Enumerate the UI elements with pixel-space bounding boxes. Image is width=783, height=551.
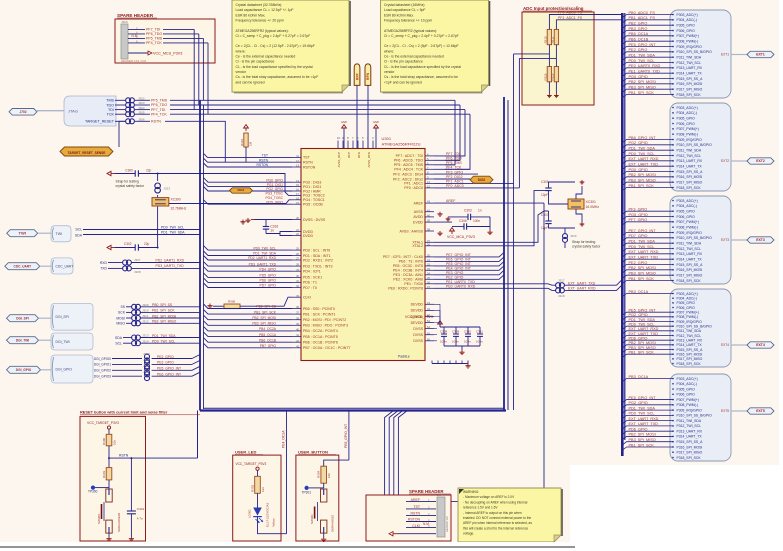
svg-text:CLKI: CLKI bbox=[303, 296, 311, 300]
DGI_SPI group bbox=[7, 315, 39, 322]
svg-text:PG3 : TOSC2: PG3 : TOSC2 bbox=[303, 194, 325, 198]
svg-text:DGI_GPIO: DGI_GPIO bbox=[56, 367, 73, 371]
svg-text:AVSS_RFP: AVSS_RFP bbox=[337, 152, 341, 167]
svg-text:DGI_GPIO3: DGI_GPIO3 bbox=[94, 375, 111, 379]
LED LD301 bbox=[253, 508, 262, 516]
svg-text:100n: 100n bbox=[452, 340, 459, 344]
svg-text:1n: 1n bbox=[478, 209, 482, 213]
svg-text:XTAL2: XTAL2 bbox=[412, 244, 423, 248]
svg-text:PB3_SPI_MISO: PB3_SPI_MISO bbox=[629, 438, 656, 442]
svg-text:EXT2: EXT2 bbox=[721, 159, 729, 163]
wire R304 to drop bbox=[324, 460, 349, 466]
spare header bottom box bbox=[366, 495, 451, 541]
svg-text:RSTN: RSTN bbox=[119, 454, 129, 458]
svg-text:TST: TST bbox=[303, 156, 311, 160]
svg-text:PG2 / AMR: PG2 / AMR bbox=[303, 189, 321, 193]
svg-text:PD0_TWI_SCL: PD0_TWI_SCL bbox=[629, 152, 655, 156]
svg-text:C303: C303 bbox=[464, 209, 472, 213]
wire TMS down bbox=[202, 38, 204, 100]
svg-text:PB6_GPIO_INT: PB6_GPIO_INT bbox=[629, 136, 657, 140]
svg-text:P318_SPI_SCK: P318_SPI_SCK bbox=[677, 362, 702, 366]
svg-text:J300: J300 bbox=[121, 20, 128, 24]
svg-text:PG0 : DIG3: PG0 : DIG3 bbox=[303, 181, 321, 185]
svg-text:PF1_ADC1_FS: PF1_ADC1_FS bbox=[558, 16, 583, 20]
svg-text:P306_GPIO: P306_GPIO bbox=[677, 215, 696, 219]
svg-text:PF3 : ADC3 : DIG4: PF3 : ADC3 : DIG4 bbox=[393, 172, 423, 176]
svg-text:EXT1: EXT1 bbox=[721, 53, 729, 57]
svg-text:PF4_TCK: PF4_TCK bbox=[151, 112, 167, 116]
svg-text:P311_TWI_SDA: P311_TWI_SDA bbox=[677, 241, 702, 245]
MCU right XTAL1 XTAL2 bbox=[425, 241, 434, 243]
svg-text:100n: 100n bbox=[464, 340, 471, 344]
svg-text:PD0_TWI_SCL: PD0_TWI_SCL bbox=[629, 59, 655, 63]
svg-text:JTAG: JTAG bbox=[68, 109, 78, 114]
svg-text:J316: J316 bbox=[570, 234, 577, 238]
svg-text:P313_UART_RX: P313_UART_RX bbox=[677, 66, 703, 70]
svg-text:J318: J318 bbox=[558, 294, 565, 298]
svg-text:PE5_GPIO_INT: PE5_GPIO_INT bbox=[629, 396, 657, 400]
svg-text:P306_GPIO: P306_GPIO bbox=[677, 306, 696, 310]
svg-text:PD7 : T0: PD7 : T0 bbox=[303, 286, 317, 290]
svg-text:P312_TWI_SCL: P312_TWI_SCL bbox=[677, 424, 702, 428]
svg-text:P307_PWM(+): P307_PWM(+) bbox=[677, 127, 699, 131]
resistor R300 bbox=[106, 434, 112, 446]
wire TDO row bbox=[170, 104, 460, 106]
svg-text:PD1_TWI_SDA: PD1_TWI_SDA bbox=[629, 146, 656, 150]
svg-text:PB0_ADC0_FS: PB0_ADC0_FS bbox=[629, 11, 656, 15]
svg-text:PF5 : ADC5 : TMS: PF5 : ADC5 : TMS bbox=[394, 163, 424, 167]
svg-text:P317_SPI_MISO: P317_SPI_MISO bbox=[677, 87, 703, 91]
svg-text:U301: U301 bbox=[382, 136, 392, 141]
svg-text:PB1_SPI_SCK: PB1_SPI_SCK bbox=[629, 184, 655, 188]
jumper J308 bbox=[123, 266, 128, 271]
svg-text:P308_PWM(-): P308_PWM(-) bbox=[677, 132, 698, 136]
svg-text:TDI: TDI bbox=[108, 108, 114, 112]
MCU left pin CLKI bbox=[292, 296, 301, 298]
svg-text:PF1 : ADC1: PF1 : ADC1 bbox=[404, 182, 423, 186]
svg-text:PG0_GPIO: PG0_GPIO bbox=[629, 75, 648, 79]
label TARGET_RESET_SENSE bbox=[60, 147, 113, 156]
svg-text:P305_GPIO: P305_GPIO bbox=[677, 209, 696, 213]
svg-text:12pF: 12pF bbox=[541, 226, 548, 230]
svg-text:XC301: XC301 bbox=[586, 200, 596, 204]
wire AREF to spare header bbox=[406, 501, 544, 503]
svg-text:PE0_UART0_RXD: PE0_UART0_RXD bbox=[629, 64, 661, 68]
svg-text:P310_SPI_SS_B/GPIO: P310_SPI_SS_B/GPIO bbox=[677, 236, 713, 240]
svg-text:Strap for testing: Strap for testing bbox=[116, 179, 139, 183]
svg-text:R311: R311 bbox=[550, 36, 554, 43]
svg-text:P311_TWI_SDA: P311_TWI_SDA bbox=[677, 329, 702, 333]
svg-text:P312_TWI_SCL: P312_TWI_SCL bbox=[677, 154, 702, 158]
svg-text:PD7_GPIO: PD7_GPIO bbox=[260, 284, 277, 288]
svg-text:PE5 : OC3C : INT5: PE5 : OC3C : INT5 bbox=[393, 264, 423, 268]
wire TMS row bbox=[170, 99, 455, 101]
extension panel EXT4 bbox=[670, 289, 731, 367]
svg-text:DVSS: DVSS bbox=[413, 327, 423, 331]
svg-text:PG2_GPIO: PG2_GPIO bbox=[266, 187, 283, 191]
svg-text:PB6_OC1B: PB6_OC1B bbox=[259, 338, 277, 342]
svg-text:PB1_SPI_SCK: PB1_SPI_SCK bbox=[629, 277, 655, 281]
svg-text:PB1_SPI_SCK: PB1_SPI_SCK bbox=[254, 310, 277, 314]
resistor R303 bbox=[106, 468, 112, 480]
svg-text:Strap for testing: Strap for testing bbox=[572, 240, 595, 244]
svg-text:SW301: SW301 bbox=[310, 514, 314, 524]
power flag above R301 bbox=[245, 128, 247, 131]
svg-text:SCK: SCK bbox=[118, 311, 126, 315]
svg-text:PF0_ADC0_FS: PF0_ADC0_FS bbox=[558, 11, 583, 15]
svg-text:PF2 : ADC2 : DIG2: PF2 : ADC2 : DIG2 bbox=[393, 177, 423, 181]
svg-text:where:: where: bbox=[236, 49, 246, 53]
wire TST rows from bus bbox=[204, 153, 293, 157]
svg-text:SKRAAK0E06: SKRAAK0E06 bbox=[117, 512, 121, 532]
svg-text:PB2_GPIO: PB2_GPIO bbox=[629, 21, 648, 25]
svg-text:PG5_GPIO: PG5_GPIO bbox=[266, 200, 283, 204]
svg-text:vendor: vendor bbox=[384, 70, 395, 74]
svg-text:R302: R302 bbox=[251, 484, 255, 492]
wire TOSC2 rail bbox=[138, 174, 292, 196]
svg-text:DEVDD: DEVDD bbox=[411, 321, 424, 325]
svg-text:P307_PWM(+): P307_PWM(+) bbox=[677, 34, 699, 38]
svg-text:RFP: RFP bbox=[355, 72, 359, 80]
svg-text:P315_SPI_SS_A: P315_SPI_SS_A bbox=[677, 77, 704, 81]
svg-text:Cs - is the total stray capaci: Cs - is the total stray capacitance, ass… bbox=[236, 75, 319, 79]
wires DEVDD to rail bbox=[434, 304, 440, 327]
svg-text:P314_UART_TX: P314_UART_TX bbox=[677, 257, 703, 261]
svg-text:PE0 : RXD0 : PCINT8: PE0 : RXD0 : PCINT8 bbox=[388, 287, 423, 291]
sheet bottom margin bbox=[0, 542, 783, 551]
svg-text:P307_PWM(+): P307_PWM(+) bbox=[677, 398, 699, 402]
svg-text:R300: R300 bbox=[102, 437, 106, 445]
svg-text:PD6_GPIO: PD6_GPIO bbox=[260, 279, 277, 283]
resistor R301 bbox=[244, 133, 248, 147]
resistor R311 bbox=[554, 29, 558, 44]
resistor R318 bbox=[547, 67, 551, 82]
svg-text:J317: J317 bbox=[558, 279, 565, 283]
svg-text:PD0_TWI_SCL: PD0_TWI_SCL bbox=[629, 412, 655, 416]
right bus verticals bbox=[503, 97, 505, 411]
svg-text:<1pF and can be ignored: <1pF and can be ignored bbox=[384, 80, 422, 84]
svg-text:VCC_TARGET_P3V3: VCC_TARGET_P3V3 bbox=[87, 421, 119, 425]
svg-text:TWI: TWI bbox=[56, 232, 63, 236]
svg-text:PF5_TMS: PF5_TMS bbox=[146, 37, 163, 41]
svg-text:PD4 : ICP1: PD4 : ICP1 bbox=[303, 270, 321, 274]
svg-text:RSTN: RSTN bbox=[259, 158, 269, 162]
MCU left pins PG group bbox=[292, 181, 301, 183]
svg-text:DGI_GPIO1: DGI_GPIO1 bbox=[94, 363, 111, 367]
MCU top pins bbox=[337, 141, 339, 149]
svg-text:10: 10 bbox=[337, 136, 341, 140]
svg-text:PG4 : TOSC1: PG4 : TOSC1 bbox=[303, 198, 325, 202]
svg-text:PF1_ADC1: PF1_ADC1 bbox=[446, 180, 464, 184]
svg-text:PB3_SPI_MISO: PB3_SPI_MISO bbox=[629, 271, 656, 275]
svg-text:TCK: TCK bbox=[107, 113, 115, 117]
MCU right AREF bbox=[425, 202, 434, 204]
svg-text:TXD: TXD bbox=[100, 267, 107, 271]
svg-text:PB2_SPI_MOSI: PB2_SPI_MOSI bbox=[252, 316, 276, 320]
svg-text:USER_LED: USER_LED bbox=[235, 450, 256, 455]
svg-text:PE7 : ICP3 : INT7 : CLK0: PE7 : ICP3 : INT7 : CLK0 bbox=[383, 255, 423, 259]
svg-text:EXT4: EXT4 bbox=[721, 343, 729, 347]
testpoint TP301 bbox=[305, 486, 309, 490]
wire AREF down to spare header bbox=[543, 203, 545, 502]
gnd flag AVSS_RFP bbox=[343, 128, 345, 148]
svg-text:RESET button with current limi: RESET button with current limit and nois… bbox=[80, 410, 168, 415]
svg-text:PF4 : ADC4 : TCK: PF4 : ADC4 : TCK bbox=[394, 168, 423, 172]
svg-text:P317_SPI_MISO: P317_SPI_MISO bbox=[677, 273, 703, 277]
svg-text:EXT_UART_RXD: EXT_UART_RXD bbox=[629, 250, 659, 254]
svg-text:DGI_GPIO0: DGI_GPIO0 bbox=[94, 357, 111, 361]
svg-text:DVSS : DVSS: DVSS : DVSS bbox=[303, 218, 326, 222]
extension panel EXT1 bbox=[670, 10, 731, 98]
svg-text:P315_SPI_SS_A: P315_SPI_SS_A bbox=[677, 440, 704, 444]
svg-text:EXT_UART_RXD: EXT_UART_RXD bbox=[629, 417, 659, 421]
svg-text:PB3_OC1A: PB3_OC1A bbox=[629, 290, 649, 294]
svg-text:PD5_GPIO: PD5_GPIO bbox=[260, 274, 277, 278]
svg-text:ATMEGA256RFR2 (typical values): ATMEGA256RFR2 (typical values): bbox=[384, 29, 437, 33]
svg-text:LD301: LD301 bbox=[248, 509, 252, 518]
svg-text:P317_SPI_MISO: P317_SPI_MISO bbox=[677, 180, 703, 184]
crystal right rail bbox=[576, 186, 582, 199]
svg-text:PF6_TDO: PF6_TDO bbox=[146, 32, 162, 36]
svg-text:PF3_GPIO: PF3_GPIO bbox=[446, 170, 463, 174]
svg-text:DGI_TWI: DGI_TWI bbox=[56, 340, 70, 344]
svg-text:SDA: SDA bbox=[75, 233, 83, 237]
svg-text:P316_SPI_MOSI: P316_SPI_MOSI bbox=[677, 82, 703, 86]
svg-text:RXD: RXD bbox=[100, 261, 108, 265]
svg-text:PD6 : T1: PD6 : T1 bbox=[303, 281, 317, 285]
jumper J319 bbox=[145, 354, 150, 359]
svg-text:Ce = 2(CL - Ci - Cs) = 2 (9pF: Ce = 2(CL - Ci - Cs) = 2 (9pF - 2.67pF) … bbox=[384, 44, 459, 48]
svg-text:PD1_TWI_SDA: PD1_TWI_SDA bbox=[161, 231, 185, 235]
wire JTAG verticals to PF pins bbox=[445, 100, 455, 165]
jumper J314 bbox=[132, 341, 137, 346]
svg-text:DEVDD: DEVDD bbox=[411, 303, 424, 307]
svg-text:C307: C307 bbox=[541, 213, 549, 217]
svg-text:PB2_SPI_MOSI: PB2_SPI_MOSI bbox=[629, 266, 656, 270]
svg-text:PE2_GPIO: PE2_GPIO bbox=[629, 261, 648, 265]
svg-text:PD0 : SCL : INT0: PD0 : SCL : INT0 bbox=[303, 248, 330, 252]
svg-text:CL - is the load capacitance s: CL - is the load capacitance specified b… bbox=[384, 65, 461, 69]
svg-text:RSTON: RSTON bbox=[257, 163, 269, 167]
svg-text:PB2 : MOSI : PDI : PCINT2: PB2 : MOSI : PDI : PCINT2 bbox=[303, 318, 346, 322]
svg-text:- Internal AREF is output on t: - Internal AREF is output on this pin wh… bbox=[463, 511, 522, 515]
svg-text:PB1_ADC1_FS: PB1_ADC1_FS bbox=[629, 16, 656, 20]
svg-text:PG2_GPIO: PG2_GPIO bbox=[629, 401, 648, 405]
svg-text:P313_UART_RX: P313_UART_RX bbox=[677, 338, 703, 342]
svg-text:this will create a short to th: this will create a short to the internal… bbox=[463, 526, 528, 530]
svg-text:PD0_TWI_SCL: PD0_TWI_SCL bbox=[629, 322, 655, 326]
svg-text:PB5 : OC1A : PCINT5: PB5 : OC1A : PCINT5 bbox=[303, 335, 338, 339]
svg-text:R303: R303 bbox=[102, 470, 106, 478]
svg-text:EXT_UART_TXD: EXT_UART_TXD bbox=[629, 332, 659, 336]
DGI_TWI group bbox=[7, 337, 39, 344]
svg-text:P315_SPI_SS_A: P315_SPI_SS_A bbox=[677, 170, 704, 174]
svg-text:PB3_OC1A: PB3_OC1A bbox=[629, 375, 649, 379]
svg-text:SW300: SW300 bbox=[97, 514, 101, 524]
svg-text:PB3_SPI_MISO: PB3_SPI_MISO bbox=[629, 346, 656, 350]
svg-text:WARNING:: WARNING: bbox=[463, 490, 479, 494]
svg-text:DGI_GPIO: DGI_GPIO bbox=[16, 368, 32, 372]
svg-text:PG0_GPIO: PG0_GPIO bbox=[266, 178, 283, 182]
wire xtal to crystal circuit bbox=[434, 230, 556, 242]
crystal XC300 bbox=[152, 198, 169, 206]
svg-text:PE6 : T3 : INT6: PE6 : T3 : INT6 bbox=[399, 260, 423, 264]
jumper J317 bbox=[556, 283, 561, 288]
svg-text:P313_UART_RX: P313_UART_RX bbox=[677, 159, 703, 163]
svg-text:PB4_OC2A: PB4_OC2A bbox=[259, 327, 277, 331]
svg-text:Frequency tolerance +/- 10 ppm: Frequency tolerance +/- 10 ppm bbox=[384, 18, 432, 22]
svg-text:MOSI: MOSI bbox=[116, 316, 125, 320]
svg-text:TMS: TMS bbox=[106, 99, 114, 103]
MCU right AVSS AVDD EVDD AVDD bbox=[425, 211, 434, 213]
svg-text:XC300: XC300 bbox=[171, 198, 181, 202]
svg-text:PaddLe: PaddLe bbox=[398, 355, 410, 359]
svg-text:J702: J702 bbox=[19, 110, 26, 114]
svg-text:P318_SPI_SCK: P318_SPI_SCK bbox=[677, 279, 702, 283]
svg-text:EL17-21SYGC/A2: EL17-21SYGC/A2 bbox=[266, 502, 270, 527]
jumper J313 bbox=[157, 174, 159, 182]
capacitor C316 1n bbox=[240, 221, 263, 223]
wire RFN down to MCU bbox=[367, 85, 369, 148]
svg-text:Ce - is the external capacitan: Ce - is the external capacitance needed bbox=[236, 55, 296, 59]
svg-text:P317_SPI_MISO: P317_SPI_MISO bbox=[677, 451, 703, 455]
svg-text:RSTN: RSTN bbox=[303, 161, 313, 165]
svg-text:SCL: SCL bbox=[75, 228, 82, 232]
svg-text:Cs - is the total stray capaci: Cs - is the total stray capacitance, ass… bbox=[384, 75, 458, 79]
CDC_UART group bbox=[5, 263, 40, 270]
resistor R319 bbox=[554, 67, 558, 82]
svg-text:reference 1.5V and 1.6V: reference 1.5V and 1.6V bbox=[463, 506, 498, 510]
svg-text:EXT4: EXT4 bbox=[756, 343, 765, 347]
svg-text:AREF: AREF bbox=[446, 199, 455, 203]
gnd flag C302 bbox=[107, 245, 111, 249]
svg-text:RSTON: RSTON bbox=[303, 165, 316, 169]
svg-text:PE4 : OC3B : INT4: PE4 : OC3B : INT4 bbox=[393, 269, 423, 273]
jumper J318 bbox=[556, 288, 561, 293]
svg-text:PE3 : OC3A : AIN1: PE3 : OC3A : AIN1 bbox=[393, 273, 423, 277]
svg-text:P318_SPI_SCK: P318_SPI_SCK bbox=[677, 456, 702, 460]
svg-text:PG1_DIG1: PG1_DIG1 bbox=[267, 183, 283, 187]
left bus vertical bbox=[199, 100, 201, 410]
svg-text:100n: 100n bbox=[473, 219, 480, 223]
svg-text:- No decoupling on AREF when u: - No decoupling on AREF when using inter… bbox=[463, 500, 528, 504]
svg-text:P316_SPI_MOSI: P316_SPI_MOSI bbox=[677, 268, 703, 272]
svg-text:enabled. DO NOT connect extern: enabled. DO NOT connect external power t… bbox=[463, 516, 531, 520]
gnd pin spare header bbox=[398, 533, 436, 535]
svg-text:PE2 : XCK0 : AIN0: PE2 : XCK0 : AIN0 bbox=[393, 278, 423, 282]
power flag VCC_MCU_P3V3 bbox=[128, 52, 148, 54]
crystal XC301 bbox=[568, 199, 584, 209]
svg-text:R318: R318 bbox=[543, 73, 547, 80]
wire TDI down bbox=[193, 29, 195, 109]
svg-text:CDC_UART: CDC_UART bbox=[56, 264, 74, 268]
svg-text:Crystal datasheet (32.768kHz):: Crystal datasheet (32.768kHz): bbox=[236, 3, 283, 7]
svg-text:PD3 : TXD1 : INT3: PD3 : TXD1 : INT3 bbox=[303, 264, 333, 268]
svg-text:PE7_GPIO_INT: PE7_GPIO_INT bbox=[629, 229, 657, 233]
svg-text:PG1 : DIG1: PG1 : DIG1 bbox=[303, 185, 321, 189]
RF component L301 bbox=[365, 64, 371, 86]
connector J100 hexagon bbox=[9, 109, 37, 116]
jumper J322 bbox=[145, 372, 150, 377]
svg-text:P310_SPI_SS_B/GPIO: P310_SPI_SS_B/GPIO bbox=[677, 50, 713, 54]
svg-text:N.M.: N.M. bbox=[423, 522, 430, 526]
svg-text:P316_SPI_MOSI: P316_SPI_MOSI bbox=[677, 352, 703, 356]
USER LED box bbox=[233, 455, 281, 541]
svg-text:PD1_TWI_SDA: PD1_TWI_SDA bbox=[629, 406, 656, 410]
svg-text:TARGET_RESET: TARGET_RESET bbox=[85, 120, 115, 124]
svg-text:PB3 : MISO : PDO : PCINT3: PB3 : MISO : PDO : PCINT3 bbox=[303, 324, 348, 328]
gnd decoupling bbox=[461, 346, 463, 350]
svg-text:PD6_GPIO: PD6_GPIO bbox=[629, 427, 648, 431]
svg-text:PB1_SPI_SCK: PB1_SPI_SCK bbox=[629, 350, 655, 354]
svg-text:P305_GPIO: P305_GPIO bbox=[677, 387, 696, 391]
title block edge bbox=[0, 546, 575, 548]
svg-text:vendor: vendor bbox=[236, 70, 247, 74]
xtal wires to MCU bbox=[434, 211, 549, 242]
svg-text:PF6 : ADC6 : TDO: PF6 : ADC6 : TDO bbox=[394, 159, 423, 163]
cap near DVDD bbox=[263, 226, 269, 228]
jumpers J302-J306 bbox=[126, 98, 131, 103]
wire R301 to RSTN bbox=[245, 147, 247, 162]
net names PF right bbox=[434, 155, 465, 157]
svg-text:PE8_GPIO_INT: PE8_GPIO_INT bbox=[344, 424, 348, 448]
svg-text:EXT_UART_TXD: EXT_UART_TXD bbox=[629, 422, 659, 426]
svg-text:AREF: AREF bbox=[414, 201, 424, 205]
svg-text:DVSS: DVSS bbox=[413, 333, 423, 337]
svg-text:P318_SPI_SCK: P318_SPI_SCK bbox=[677, 93, 702, 97]
svg-text:R310: R310 bbox=[543, 36, 547, 43]
svg-text:VCC_TARGET_P3V3: VCC_TARGET_P3V3 bbox=[236, 462, 267, 466]
ADC input protection/scaling box bbox=[522, 12, 594, 105]
svg-text:EXT5: EXT5 bbox=[721, 409, 729, 413]
svg-text:P309_IRQ/GPIO: P309_IRQ/GPIO bbox=[677, 320, 703, 324]
net label DIG1 bbox=[230, 188, 253, 193]
svg-text:RFN: RFN bbox=[366, 72, 370, 80]
svg-text:Ci - is the pin capacitance: Ci - is the pin capacitance bbox=[384, 60, 423, 64]
MCU bottom pins bbox=[431, 361, 433, 364]
gnd below MCU bbox=[467, 361, 469, 364]
svg-text:AVSS : AAVSS: AVSS : AAVSS bbox=[399, 229, 423, 233]
svg-text:1n: 1n bbox=[270, 229, 274, 233]
wire RSTN row bbox=[165, 121, 225, 162]
svg-text:J319: J319 bbox=[143, 352, 150, 356]
svg-text:PB1_SPI_SCK: PB1_SPI_SCK bbox=[629, 443, 655, 447]
ground in ADC box bbox=[548, 94, 550, 96]
svg-text:PF0_ADC0: PF0_ADC0 bbox=[446, 184, 464, 188]
svg-text:P303_ADC(+): P303_ADC(+) bbox=[677, 106, 698, 110]
svg-text:PB3_SPI_MISO: PB3_SPI_MISO bbox=[629, 85, 656, 89]
svg-text:PB7_GPIO: PB7_GPIO bbox=[260, 344, 277, 348]
wire TOSC1 rail bbox=[169, 200, 292, 204]
svg-text:EXT_UART_TXD: EXT_UART_TXD bbox=[568, 281, 596, 285]
svg-text:Ce - is the external capacitan: Ce - is the external capacitance needed bbox=[384, 55, 444, 59]
MCU left pins DVSS DVDD bbox=[292, 219, 301, 221]
svg-text:22p: 22p bbox=[144, 242, 150, 246]
svg-text:PB0_SPI_SS: PB0_SPI_SS bbox=[256, 305, 276, 309]
svg-text:PD3_UART1_TXD: PD3_UART1_TXD bbox=[156, 264, 185, 268]
svg-text:PF7 : ADC7 : TDI: PF7 : ADC7 : TDI bbox=[396, 154, 423, 158]
svg-text:DGI_TWI: DGI_TWI bbox=[16, 339, 29, 343]
svg-text:PD1 : SDA : INT1: PD1 : SDA : INT1 bbox=[303, 254, 331, 258]
svg-text:PE5_GPIO_INT: PE5_GPIO_INT bbox=[629, 43, 657, 47]
svg-text:R301: R301 bbox=[240, 138, 244, 146]
wire drop PE4 user led bbox=[286, 411, 288, 534]
svg-text:P304_ADC(-): P304_ADC(-) bbox=[677, 18, 697, 22]
resistor R304 bbox=[321, 466, 327, 483]
svg-text:P308_PWM(-): P308_PWM(-) bbox=[677, 315, 698, 319]
svg-text:J322: J322 bbox=[143, 370, 150, 374]
svg-text:J307: J307 bbox=[134, 258, 141, 262]
